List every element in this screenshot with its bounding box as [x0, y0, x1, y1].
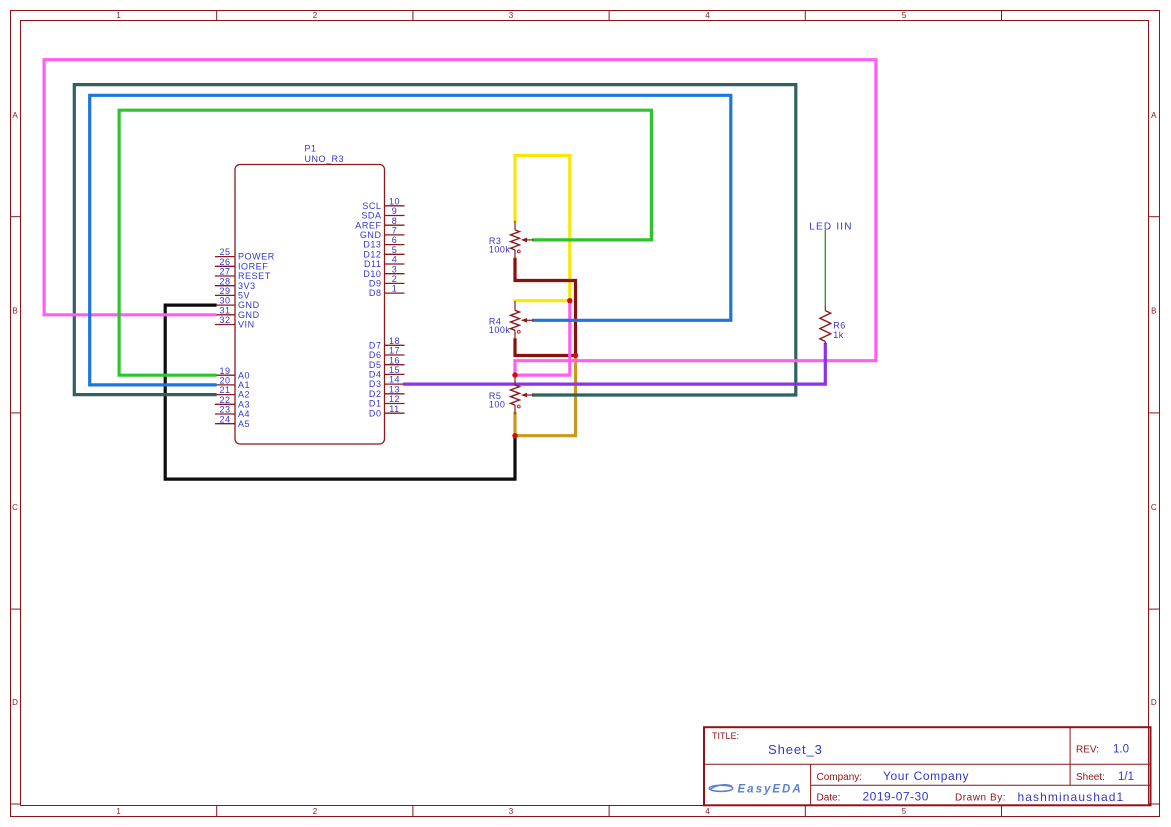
- svg-text:A: A: [12, 111, 18, 120]
- wire thin green LED IIN to R6 top: [824, 231, 826, 307]
- wire GND pin30 to bottom black net: [165, 305, 515, 479]
- svg-text:GND: GND: [238, 300, 260, 310]
- svg-text:10: 10: [389, 196, 400, 206]
- svg-text:5: 5: [902, 11, 907, 20]
- svg-text:SDA: SDA: [361, 211, 381, 221]
- pin 31 GND: [215, 305, 260, 320]
- svg-text:5: 5: [902, 807, 907, 816]
- svg-text:2: 2: [313, 11, 318, 20]
- svg-text:5V: 5V: [238, 291, 250, 301]
- svg-text:LED IIN: LED IIN: [809, 222, 852, 233]
- svg-text:D10: D10: [363, 269, 381, 279]
- resistor R6 1k: [820, 306, 831, 344]
- wire magenta R5 top to yellow node: [515, 301, 570, 375]
- junction yellow/magenta node: [567, 298, 572, 303]
- pin 3 D10: [363, 264, 404, 279]
- svg-text:9: 9: [392, 206, 398, 216]
- svg-text:13: 13: [389, 384, 400, 394]
- junction gold/black node: [512, 433, 517, 438]
- svg-text:B: B: [1151, 307, 1156, 316]
- svg-text:4: 4: [392, 255, 398, 265]
- svg-text:100: 100: [489, 400, 506, 410]
- pin 32 VIN: [215, 315, 255, 330]
- wire gold R5 bottom stub: [513, 413, 516, 435]
- svg-text:D12: D12: [363, 249, 381, 259]
- svg-text:26: 26: [219, 257, 230, 267]
- svg-text:SCL: SCL: [362, 201, 381, 211]
- svg-text:GND: GND: [238, 310, 260, 320]
- svg-text:GND: GND: [360, 230, 382, 240]
- svg-text:3: 3: [392, 264, 398, 274]
- svg-text:3: 3: [509, 807, 514, 816]
- wire dark red R3 bottom to node: [515, 259, 576, 355]
- svg-text:11: 11: [389, 404, 399, 414]
- pin 2 D9: [369, 274, 405, 289]
- svg-text:D11: D11: [364, 259, 382, 269]
- svg-text:EasyEDA: EasyEDA: [738, 783, 803, 795]
- svg-text:4: 4: [705, 807, 710, 816]
- wire yellow R4 top segment: [515, 299, 570, 302]
- svg-text:2: 2: [313, 807, 318, 816]
- wire teal A2 to R5 wiper loop: [74, 85, 796, 395]
- resistor R4 100k (variable): [511, 301, 534, 340]
- svg-text:12: 12: [389, 394, 400, 404]
- svg-text:1/1: 1/1: [1118, 771, 1134, 783]
- svg-text:Sheet_3: Sheet_3: [768, 742, 823, 757]
- svg-text:D8: D8: [369, 288, 382, 298]
- svg-text:19: 19: [219, 366, 230, 376]
- svg-text:18: 18: [389, 336, 400, 346]
- pin 11 D0: [369, 404, 405, 419]
- svg-text:22: 22: [219, 395, 230, 405]
- svg-text:Sheet:: Sheet:: [1076, 772, 1105, 783]
- svg-text:1: 1: [116, 11, 121, 20]
- pin 20 A1: [215, 376, 250, 391]
- svg-text:16: 16: [389, 355, 400, 365]
- svg-text:D7: D7: [369, 340, 382, 350]
- svg-text:17: 17: [389, 346, 400, 356]
- svg-text:D5: D5: [369, 360, 382, 370]
- svg-text:100k: 100k: [489, 245, 511, 255]
- pin 21 A2: [215, 385, 250, 400]
- pin 23 A4: [215, 405, 250, 420]
- pin 17 D6: [369, 346, 405, 361]
- pin 29 5V: [215, 286, 250, 301]
- junction magenta R5 top node: [512, 372, 517, 377]
- wire dark red R4 bottom to node: [515, 340, 576, 356]
- svg-text:C: C: [1151, 503, 1157, 512]
- wire magenta GND pin31 loop: [44, 60, 876, 375]
- svg-text:VIN: VIN: [238, 320, 255, 330]
- pin 9 SDA: [361, 206, 404, 221]
- pin 5 D12: [363, 245, 404, 260]
- svg-text:3: 3: [509, 11, 514, 20]
- pin 28 3V3: [215, 276, 256, 291]
- wire blue A1 to R4 wiper loop: [90, 95, 731, 385]
- svg-text:hashminaushad1: hashminaushad1: [1018, 790, 1125, 804]
- svg-text:8: 8: [392, 216, 398, 226]
- pin 6 D13: [363, 235, 404, 250]
- svg-text:27: 27: [219, 267, 230, 277]
- resistor R5 100 (variable): [511, 376, 534, 415]
- svg-text:28: 28: [219, 276, 230, 286]
- svg-text:Company:: Company:: [817, 772, 863, 783]
- svg-text:D4: D4: [369, 370, 382, 380]
- svg-text:B: B: [12, 307, 17, 316]
- svg-text:A0: A0: [238, 370, 250, 380]
- svg-text:D9: D9: [369, 279, 382, 289]
- svg-text:C: C: [12, 503, 18, 512]
- svg-text:D6: D6: [369, 350, 382, 360]
- svg-text:1.0: 1.0: [1113, 744, 1129, 756]
- svg-text:24: 24: [219, 414, 230, 424]
- svg-text:30: 30: [219, 296, 230, 306]
- svg-text:21: 21: [219, 385, 230, 395]
- svg-text:29: 29: [219, 286, 230, 296]
- connector P1 UNO_R3: [235, 165, 385, 445]
- svg-text:4: 4: [705, 11, 710, 20]
- svg-text:1: 1: [116, 807, 121, 816]
- pin 14 D3: [369, 375, 405, 390]
- svg-text:5: 5: [392, 245, 398, 255]
- svg-text:2: 2: [392, 274, 398, 284]
- svg-text:14: 14: [389, 375, 400, 385]
- svg-text:TITLE:: TITLE:: [712, 731, 739, 741]
- pin 26 IOREF: [215, 257, 268, 272]
- svg-text:3V3: 3V3: [238, 281, 256, 291]
- svg-text:23: 23: [219, 405, 230, 415]
- svg-text:Drawn By:: Drawn By:: [955, 793, 1006, 804]
- svg-text:15: 15: [389, 365, 400, 375]
- wire purple D3 to R6 bottom: [405, 344, 826, 384]
- svg-text:2019-07-30: 2019-07-30: [863, 790, 929, 804]
- pin 18 D7: [369, 336, 405, 351]
- svg-text:A4: A4: [238, 409, 250, 419]
- svg-text:D1: D1: [369, 399, 382, 409]
- svg-text:7: 7: [392, 226, 398, 236]
- pin 4 D11: [364, 255, 405, 270]
- svg-text:1k: 1k: [833, 330, 844, 340]
- wire green A0 to R3 wiper loop: [119, 110, 651, 375]
- svg-text:1: 1: [392, 284, 398, 294]
- svg-text:P1: P1: [305, 144, 317, 154]
- svg-text:D3: D3: [369, 379, 382, 389]
- pin 30 GND: [215, 296, 260, 311]
- svg-text:A2: A2: [238, 390, 250, 400]
- svg-text:UNO_R3: UNO_R3: [305, 154, 345, 164]
- pin 12 D1: [369, 394, 405, 409]
- pin 25 POWER: [215, 247, 275, 262]
- svg-text:100k: 100k: [489, 325, 511, 335]
- svg-text:32: 32: [219, 315, 230, 325]
- svg-text:D2: D2: [369, 389, 382, 399]
- svg-text:IOREF: IOREF: [238, 261, 268, 271]
- wire yellow R3 top loop: [515, 156, 570, 301]
- pin 8 AREF: [355, 216, 404, 231]
- svg-text:POWER: POWER: [238, 252, 275, 262]
- svg-text:6: 6: [392, 235, 398, 245]
- pin 22 A3: [215, 395, 250, 410]
- svg-text:Date:: Date:: [817, 793, 841, 804]
- pin 19 A0: [215, 366, 250, 381]
- resistor R3 100k (variable): [511, 221, 534, 260]
- svg-text:REV:: REV:: [1076, 745, 1099, 756]
- svg-text:D: D: [12, 698, 18, 707]
- pin 1 D8: [369, 284, 405, 299]
- svg-text:AREF: AREF: [355, 220, 381, 230]
- svg-text:D0: D0: [369, 408, 382, 418]
- svg-text:D13: D13: [363, 240, 381, 250]
- svg-text:A5: A5: [238, 419, 250, 429]
- pin 15 D4: [369, 365, 405, 380]
- svg-text:RESET: RESET: [238, 271, 271, 281]
- svg-text:A: A: [1151, 111, 1157, 120]
- svg-text:A3: A3: [238, 399, 250, 409]
- pin 13 D2: [369, 384, 405, 399]
- pin 10 SCL: [362, 196, 404, 211]
- svg-text:20: 20: [219, 376, 230, 386]
- svg-text:31: 31: [219, 305, 230, 315]
- pin 7 GND: [360, 226, 405, 241]
- wire gold node to R5 bottom: [515, 356, 576, 436]
- svg-text:25: 25: [219, 247, 230, 257]
- pin 16 D5: [369, 355, 405, 370]
- pin 24 A5: [215, 414, 250, 429]
- junction dark red/gold node: [573, 353, 578, 358]
- svg-text:A1: A1: [238, 380, 250, 390]
- svg-text:Your Company: Your Company: [883, 769, 969, 783]
- pin 27 RESET: [215, 267, 271, 282]
- svg-text:D: D: [1151, 698, 1157, 707]
